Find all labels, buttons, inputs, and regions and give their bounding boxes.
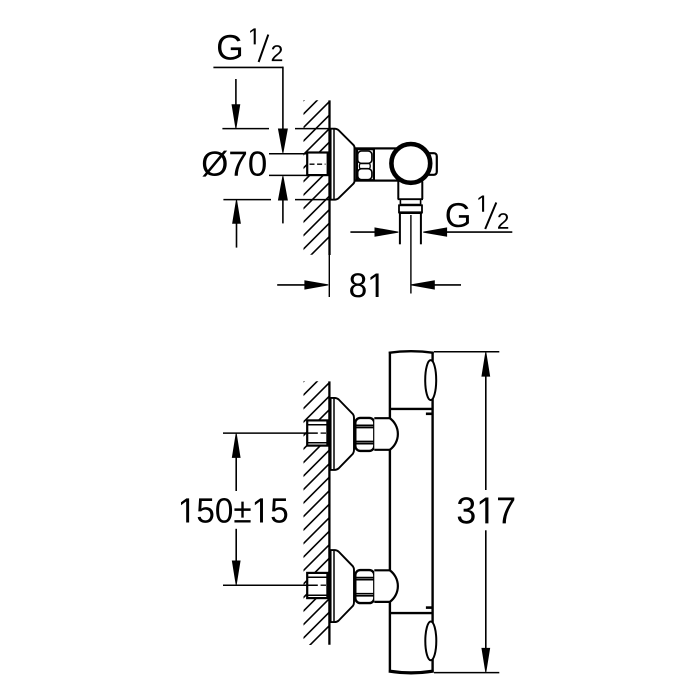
escutcheon cone (side view) bbox=[331, 129, 355, 200]
mixer bar body bbox=[389, 351, 434, 673]
union nut (side view) bbox=[357, 149, 374, 180]
top inlet: escutcheon cone bbox=[331, 398, 354, 470]
body tube (side view) bbox=[355, 148, 415, 180]
hose nut band bbox=[399, 205, 422, 212]
bottom cap edge bbox=[389, 671, 434, 673]
supply nipple square behind wall bbox=[307, 153, 328, 176]
bottom inlet: union nut (front) bbox=[355, 570, 374, 603]
wall line (side view) bbox=[328, 100, 330, 255]
label G1/2 top bbox=[218, 35, 241, 60]
left edge segments bbox=[389, 352, 391, 418]
label 81 bbox=[350, 273, 379, 297]
top inlet: square nut at wall bbox=[307, 420, 327, 445]
label 150±15 bbox=[181, 498, 287, 523]
bottom inlet: square nut at wall bbox=[307, 573, 327, 598]
top side oval button bbox=[425, 360, 436, 400]
dim 81: left arrow bbox=[277, 284, 306, 286]
joint line top bbox=[390, 408, 433, 410]
wall line (front view) bbox=[328, 381, 330, 644]
top cap edge bbox=[389, 351, 434, 353]
bottom inlet: connector with arc into bar bbox=[374, 570, 398, 602]
dim 150±15: arrows and line bbox=[232, 434, 240, 458]
dim G1/2 lower: line and arrows bbox=[350, 231, 376, 233]
thermostat knob circle (side view) bbox=[391, 144, 430, 183]
wall extension line down to 81 dim bbox=[328, 255, 330, 297]
outlet neck below circle bbox=[397, 182, 399, 200]
outlet shoulder line bbox=[398, 198, 423, 200]
outlet groove band bbox=[400, 200, 420, 205]
top inlet: connector with arc into bar bbox=[374, 418, 398, 450]
dim 317: arrows and line bbox=[482, 352, 490, 376]
joint line bottom bbox=[390, 612, 433, 614]
wall hatching (side view) bbox=[290, 64, 340, 276]
bottom inlet: escutcheon cone bbox=[331, 550, 354, 622]
nipple extension lines (G1/2 pipe edges) bbox=[269, 153, 307, 155]
dim G1/2 top: leader bbox=[213, 66, 283, 68]
dim 317: extension lines bbox=[434, 351, 499, 353]
dim 81: right arrow bbox=[411, 281, 434, 289]
small tick below top joint bbox=[426, 412, 432, 415]
knob end-cap tab (right of circle) bbox=[426, 153, 437, 175]
wall hatching (front view) bbox=[290, 345, 340, 665]
top inlet: union nut (front) bbox=[355, 418, 374, 451]
label 317 bbox=[458, 497, 515, 524]
hose stub bbox=[399, 214, 401, 244]
dim O70: extension lines bbox=[222, 128, 269, 130]
escutcheon flange line bbox=[333, 129, 335, 200]
small tick above bottom joint bbox=[426, 606, 432, 609]
dim 150±15: extension lines bbox=[223, 432, 318, 434]
right edge bbox=[431, 352, 433, 672]
hose centerline bbox=[410, 215, 412, 294]
dim O70: arrows bbox=[235, 79, 237, 105]
label O70 bbox=[202, 151, 266, 177]
dim G1/2 top: arrows bbox=[279, 129, 288, 153]
bottom side oval button bbox=[425, 622, 436, 661]
label G1/2 lower bbox=[447, 203, 469, 227]
